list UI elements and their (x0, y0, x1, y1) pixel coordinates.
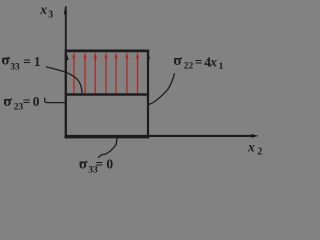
rectangle top face (middle line) (65, 93, 149, 96)
red load arrow 4 (105, 58, 107, 94)
svg-text:1: 1 (34, 54, 41, 69)
rectangle right edge (147, 50, 149, 139)
x2 axis arrowhead (251, 134, 258, 138)
label x2 (horizontal axis) (247, 139, 262, 157)
black end arrowhead left (65, 54, 69, 60)
load cap line (top of arrows) (65, 50, 150, 53)
svg-text:0: 0 (106, 156, 113, 171)
x3 axis (vertical line) (65, 7, 67, 139)
leader curve from sigma33=0 label to bottom edge (98, 138, 117, 158)
svg-text:x: x (247, 139, 255, 154)
red load arrow 1 (73, 58, 75, 94)
svg-text:0: 0 (33, 94, 40, 109)
svg-text:3: 3 (48, 10, 53, 21)
label sigma23 = 0 (left) (3, 94, 39, 113)
svg-text:x: x (39, 2, 47, 17)
svg-text:1: 1 (219, 62, 224, 72)
red load arrow 3 (94, 58, 96, 94)
red load arrow 2 (84, 58, 86, 94)
svg-text:σ: σ (79, 156, 88, 172)
svg-text:=: = (195, 55, 203, 70)
red load arrow 6 (126, 58, 128, 94)
label sigma33 = 1 (top left) (1, 53, 41, 73)
leader elbow from sigma23=0 label to left edge (45, 98, 66, 103)
svg-text:=: = (96, 156, 104, 171)
leader curve from sigma22=4x1 label to right edge (149, 73, 175, 104)
x2 axis (horizontal line) (65, 135, 252, 137)
red load arrow 7 (137, 58, 139, 94)
svg-text:x: x (209, 55, 217, 70)
svg-text:=: = (23, 94, 31, 109)
svg-text:σ: σ (1, 53, 10, 69)
svg-text:33: 33 (10, 62, 20, 72)
rectangle bottom edge (65, 136, 150, 139)
svg-text:σ: σ (3, 94, 12, 110)
rectangle left edge (over axis) (65, 50, 67, 139)
label sigma33 = 0 (bottom) (79, 156, 114, 175)
red load arrow 5 (115, 58, 117, 94)
svg-text:=: = (23, 54, 31, 69)
x3 axis arrowhead (64, 6, 67, 15)
label x3 (vertical axis) (39, 2, 53, 21)
svg-text:σ: σ (173, 53, 182, 69)
svg-text:22: 22 (184, 62, 194, 72)
svg-text:2: 2 (257, 146, 262, 157)
black end arrowhead right (147, 53, 151, 59)
leader curve from sigma33=1 label to loaded face (46, 67, 82, 93)
label sigma22 = 4x1 (right) (173, 53, 223, 72)
